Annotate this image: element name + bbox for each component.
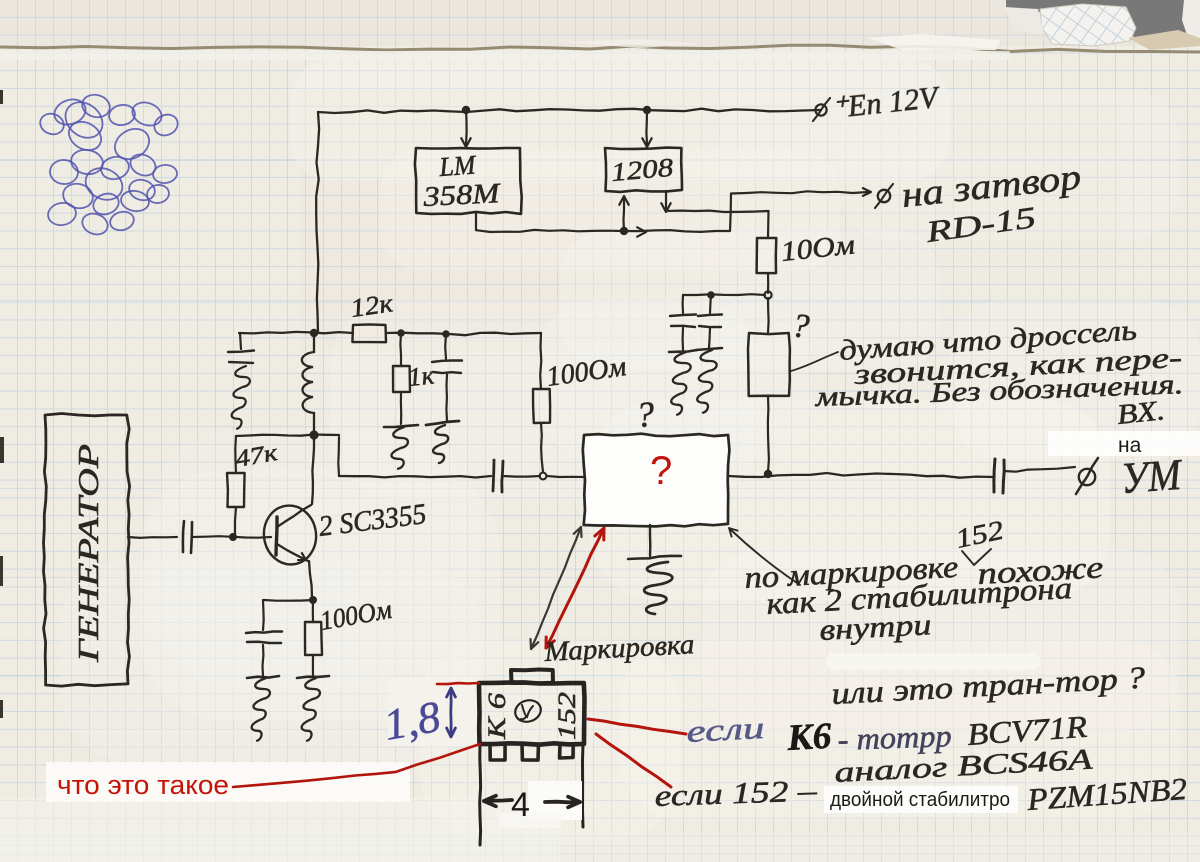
svg-text:152: 152 [554, 692, 581, 740]
blue pen scribble [37, 92, 181, 238]
note как 2 стабилитрона [766, 570, 1073, 621]
wire to input bus corner [337, 437, 340, 476]
capacitor C1 to ground [669, 295, 697, 415]
dimension arrow left [484, 796, 512, 807]
capacitor C8 series output [994, 459, 1004, 493]
package marking 152 [554, 692, 581, 740]
label 100Ом mid [545, 351, 629, 393]
resistor R 100Ом mid [533, 333, 550, 472]
leader line to note [791, 352, 838, 371]
ground under box [628, 525, 681, 614]
capacitor C5 series input [493, 460, 503, 492]
note или это тран-тор [831, 660, 1147, 711]
label 100Ом emitter [318, 594, 394, 636]
IC U3 unknown box [583, 434, 730, 527]
label ГЕНЕРАТОР [73, 444, 105, 663]
svg-text:К 6: К 6 [484, 692, 511, 740]
wire generator to cap [128, 536, 177, 539]
node junction base [229, 533, 237, 541]
blue dimension arrow 1.8 [447, 688, 456, 737]
blue label 1,8 [380, 692, 444, 750]
label LM [437, 149, 477, 182]
svg-text:?: ? [650, 449, 672, 493]
svg-text:ВХ.: ВХ. [1115, 395, 1166, 431]
note похоже [977, 549, 1105, 591]
tear highlights [868, 34, 1000, 50]
note думаю что дроссель [838, 314, 1138, 367]
package pin 2 [522, 744, 539, 760]
package body SOT [479, 682, 585, 744]
package pin 3 [560, 744, 574, 758]
wire collector up [312, 437, 314, 504]
red leader to если 152 [596, 734, 671, 787]
note если 152 - [654, 774, 818, 813]
wire choke to output bus [768, 396, 769, 472]
dimension line left [478, 744, 482, 845]
terminal na UM [1076, 458, 1098, 494]
wire left vertical drop [316, 112, 319, 333]
red leader to если [588, 719, 686, 734]
svg-text:если: если [686, 710, 766, 749]
label 1208 [610, 153, 674, 187]
svg-text:К6: К6 [785, 716, 833, 759]
node junction at 1k [397, 329, 405, 337]
note аналог BCS46A [834, 744, 1094, 789]
wire LM358M output down-right [476, 213, 622, 232]
svg-text:1,8: 1,8 [380, 692, 444, 750]
svg-text:УМ: УМ [1119, 450, 1184, 503]
node junction at cap [707, 291, 715, 299]
wire top supply bus [318, 109, 820, 113]
note К6 bold [785, 716, 833, 759]
package tab [511, 670, 553, 684]
node junction emitter [309, 596, 317, 604]
regulator U2 1208 box [605, 148, 682, 192]
red dimension tick top [437, 683, 479, 684]
note Маркировка [543, 629, 695, 668]
capacitor C3 to ground [228, 333, 254, 429]
dimension arrow right [545, 797, 580, 808]
dimension label 4 [511, 786, 530, 824]
note ВХ. [1115, 395, 1166, 431]
wire output bus [728, 473, 993, 478]
white patch behind на [1048, 431, 1200, 456]
label на (typed) [1118, 434, 1142, 457]
label что это такое (typed red) [57, 770, 229, 800]
torn page top edge: gray backing [1006, 0, 1200, 46]
grid accent lines [0, 161, 1200, 846]
node junction top of 1208 [643, 106, 651, 114]
node open circle on bus [540, 473, 547, 480]
torn white paper piece with diagonal grid [1040, 4, 1136, 46]
svg-text:1208: 1208 [610, 153, 674, 187]
resistor R 100Ом emitter [297, 600, 329, 741]
wire 10Ohm to node [767, 273, 769, 293]
note по маркировке [744, 549, 960, 595]
wire bias bus right [386, 333, 541, 336]
svg-text:LM: LM [437, 149, 477, 182]
red arrow box to package [546, 528, 604, 648]
resistor R 1к to ground [384, 333, 418, 469]
note PZM15NB2 [1025, 771, 1188, 817]
op-amp U1 LM358M box [415, 148, 522, 214]
label RD-15 [923, 201, 1038, 249]
arrow up into 1208 pin [619, 196, 628, 231]
label 47к [234, 440, 281, 473]
capacitor C6 series base [183, 521, 192, 553]
note - тотрр [837, 718, 952, 757]
label 12к [349, 288, 396, 323]
svg-text:ГЕНЕРАТОР: ГЕНЕРАТОР [73, 444, 105, 663]
label двойной стабилитро (typed) [830, 789, 1010, 811]
package marking К 6 [484, 692, 511, 740]
arrowhead right on wire [637, 227, 646, 236]
svg-text:внутри: внутри [819, 608, 933, 647]
svg-text:4: 4 [511, 786, 530, 824]
wire cap to base [192, 536, 271, 538]
wire input bus left [339, 476, 491, 478]
note мычка без обозначения [814, 369, 1184, 413]
wire 1208 to 10Ohm resistor [666, 211, 769, 238]
page fold line [0, 45, 1200, 52]
wire 47к top [236, 435, 339, 437]
note внутри [819, 608, 933, 647]
terminal +Eп 12V [813, 98, 830, 121]
wire node to choke [767, 298, 770, 333]
node junction at cap C4 [442, 330, 450, 338]
wire cap to node [503, 475, 540, 478]
wire node to capacitors [683, 293, 765, 296]
question mark above box [635, 394, 656, 435]
dark arrow box to package [531, 527, 582, 649]
label 2 SC3355 [317, 498, 428, 543]
wire cap to terminal [1004, 467, 1075, 472]
svg-text:если 152 –: если 152 – [654, 774, 818, 813]
arrow into LM358M [461, 110, 470, 147]
label +Eп 12V [830, 79, 942, 125]
node junction top-left of LM358M [462, 106, 470, 114]
wire node to box [547, 476, 584, 477]
node junction at inductor [310, 329, 318, 337]
package logo [512, 697, 543, 725]
label 1к [407, 360, 437, 392]
wire emitter branch left [264, 599, 313, 602]
note если (blue) [686, 710, 766, 749]
node junction collector [309, 430, 318, 439]
beige torn fragment [1128, 30, 1200, 50]
left edge scan artifacts [0, 90, 4, 718]
choke L2 unmarked box [748, 333, 790, 396]
node junction on output bus [764, 470, 772, 478]
note звонится как пере- [852, 342, 1183, 391]
svg-text:двойной стабилитро: двойной стабилитро [830, 789, 1010, 811]
package pin 1 [490, 744, 505, 760]
red leader что это такое [233, 744, 480, 787]
note BCV71R [966, 709, 1088, 752]
torn right edge piece [1182, 0, 1200, 40]
transistor Q1 2SC3355 [260, 502, 320, 568]
white patch behind 4 [499, 781, 582, 828]
pointer to box corner [729, 528, 800, 585]
note caret under 152 [962, 549, 991, 565]
dimension line right [581, 744, 585, 827]
white smear [826, 653, 1040, 670]
svg-text:12к: 12к [349, 288, 396, 323]
svg-text:358M: 358M [422, 178, 503, 213]
wire bias bus [239, 332, 353, 334]
label УМ [1119, 450, 1184, 503]
bottom left fade [0, 798, 1200, 862]
wire emitter down [309, 561, 312, 598]
inductor L1 [302, 333, 314, 433]
white patch behind что это такое [46, 762, 410, 802]
resistor R 12к inline [352, 324, 386, 342]
label на затвор [900, 156, 1083, 215]
terminal na zatvor [875, 184, 893, 208]
svg-text:1к: 1к [407, 360, 437, 392]
resistor R 47к [227, 436, 245, 535]
svg-text:что это такое: что это такое [57, 770, 229, 800]
red question mark in box [650, 449, 672, 493]
svg-text:?: ? [635, 394, 656, 435]
arrow down from 1208 right pin [661, 191, 670, 212]
node open junction [764, 291, 771, 298]
question mark above choke [790, 307, 811, 346]
small torn white piece [1004, 7, 1044, 34]
arrow into 1208 [642, 110, 651, 147]
resistor 10Ом [757, 238, 777, 273]
note 152 above [953, 515, 1006, 554]
label 358M [422, 178, 503, 213]
wire junction to gate terminal [624, 188, 871, 232]
capacitor C4 to ground [426, 334, 462, 463]
label 10Ом [779, 229, 856, 268]
generator box [44, 414, 130, 687]
capacitor C2 to ground [696, 295, 722, 413]
capacitor C7 emitter bypass [246, 600, 282, 741]
white patch left of package [388, 678, 478, 746]
node junction below 1208 [620, 227, 628, 235]
white patch behind двойной [824, 786, 1018, 813]
